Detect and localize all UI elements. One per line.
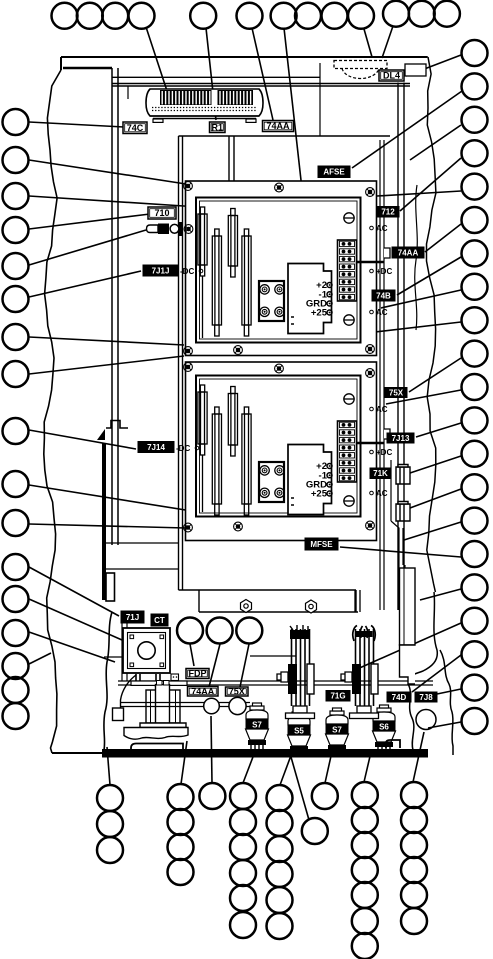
label 75X <box>385 388 407 398</box>
plate screw <box>234 522 243 531</box>
fuse component <box>147 222 183 236</box>
label 71K <box>370 468 391 479</box>
bottom tube right <box>386 740 400 748</box>
card guide bar <box>198 207 207 338</box>
connector stripes <box>160 90 253 105</box>
ring small right <box>229 697 246 714</box>
label 7J1J-DC <box>143 265 178 276</box>
svg-text:7J13: 7J13 <box>392 434 410 443</box>
panel left edge <box>179 136 183 590</box>
svg-text:7J1J: 7J1J <box>152 266 170 275</box>
svg-text:DL4: DL4 <box>383 71 400 81</box>
side plug <box>384 429 390 439</box>
plate screw <box>184 225 193 234</box>
mid panel verticals above bundles <box>355 590 360 612</box>
CT transformer <box>123 628 170 673</box>
terminal strip <box>338 421 357 482</box>
torn break line, left inner (lower) <box>104 612 112 750</box>
CT wire hook <box>121 675 137 708</box>
connector pin bundle at x=364 <box>356 629 374 706</box>
connector right foot <box>246 119 256 122</box>
svg-text:+DC: +DC <box>376 267 392 276</box>
hex bolt left <box>241 600 252 613</box>
cabinet top edge <box>61 56 427 58</box>
svg-text:7J14: 7J14 <box>147 443 165 452</box>
svg-text:+25: +25 <box>311 489 328 500</box>
svg-text:+25: +25 <box>311 308 328 319</box>
plate screw <box>275 364 284 373</box>
label 71G <box>326 691 350 702</box>
right edge vertical near top <box>427 56 428 58</box>
label 74AA (right) <box>392 247 424 258</box>
hinge white tab <box>106 573 115 601</box>
mid rail segment <box>250 655 296 657</box>
ring small left <box>204 698 220 714</box>
ring bottom right <box>416 710 436 730</box>
svg-text:-DC: -DC <box>176 444 190 453</box>
shelf bracket verticals <box>229 136 234 181</box>
slotted screw <box>344 394 354 404</box>
svg-text:71J: 71J <box>126 613 139 622</box>
terminal strip <box>338 240 357 301</box>
valve S7 <box>326 708 348 724</box>
plate screw <box>234 346 243 355</box>
bottom-right torn jag <box>408 592 437 678</box>
vertical line above module1 right <box>319 63 321 136</box>
DL4 dashed outline component <box>334 61 387 69</box>
solenoid arm <box>121 703 250 707</box>
label FDP <box>186 669 209 679</box>
tray tube <box>131 744 183 756</box>
module face box <box>196 376 361 517</box>
FDP little box <box>171 674 179 681</box>
label 7J8 <box>415 692 437 702</box>
CT mounting feet <box>136 674 160 681</box>
label 712 <box>377 207 399 218</box>
top rail lines <box>112 77 410 86</box>
top-left corner post <box>63 67 112 70</box>
card guide bar <box>242 407 251 515</box>
left wall channel <box>112 68 118 545</box>
slotted screw <box>344 315 354 325</box>
screw plate <box>259 281 284 321</box>
svg-text:AC: AC <box>376 405 388 414</box>
card guide bar <box>212 229 221 336</box>
module plate (y+0) <box>186 181 377 356</box>
svg-text:7J8: 7J8 <box>419 693 433 702</box>
svg-text:74B: 74B <box>376 291 391 300</box>
svg-text:75X: 75X <box>229 687 245 697</box>
CT base plate <box>131 681 187 685</box>
connector left foot <box>153 119 163 122</box>
card guide bar <box>228 209 237 278</box>
plate screw <box>366 188 375 197</box>
connector pin bundle at x=300 <box>292 629 310 706</box>
panel right edge lines <box>380 140 384 610</box>
label 710 <box>148 207 176 219</box>
power terminal box <box>288 445 332 515</box>
torn break line, right second <box>415 185 418 330</box>
svg-text:-DC: -DC <box>180 267 194 276</box>
side plug <box>384 248 390 258</box>
svg-text:S7: S7 <box>252 720 262 729</box>
plate screw <box>184 347 193 356</box>
label R1 <box>210 122 226 133</box>
svg-text:71K: 71K <box>373 469 388 478</box>
label CT <box>151 614 168 626</box>
card guide bar <box>198 385 207 512</box>
valve S5 <box>288 709 310 725</box>
svg-text:FDP: FDP <box>189 669 207 679</box>
hex bolt right <box>306 600 317 613</box>
svg-text:74C: 74C <box>127 123 144 133</box>
panel top shelf <box>179 135 391 137</box>
label 74B <box>372 290 395 301</box>
label 74D <box>387 692 411 702</box>
torn break line, right <box>427 57 436 592</box>
svg-text:S5: S5 <box>294 726 304 735</box>
bottom-right bracket <box>400 645 416 684</box>
connector lower dotted band <box>152 107 257 109</box>
left hinge bar <box>102 443 106 600</box>
right channel bracket <box>400 568 416 645</box>
plate screw <box>366 345 375 354</box>
label 75X (bottom) <box>226 687 249 697</box>
leader lines from callouts <box>29 26 462 820</box>
plug P2 <box>396 502 410 522</box>
hinge wedge <box>97 429 105 440</box>
card guide bar <box>212 407 221 515</box>
connector bottom bar <box>150 116 259 119</box>
module plate (y+181) <box>186 362 377 541</box>
slotted screw <box>344 496 354 506</box>
plate screw <box>366 521 375 530</box>
svg-text:S6: S6 <box>379 722 389 731</box>
svg-text:MFSE: MFSE <box>310 540 333 549</box>
svg-text:712: 712 <box>381 208 395 217</box>
plate screw <box>184 523 193 532</box>
label 71J (bottom) <box>121 611 144 623</box>
svg-text:71G: 71G <box>330 692 345 701</box>
label 7J14-DC <box>138 442 174 453</box>
cabinet left corner edge <box>60 57 62 70</box>
slotted screw <box>344 213 354 223</box>
DL4 cable curve <box>342 69 379 79</box>
small wall box <box>113 708 124 721</box>
inner right wall <box>398 83 404 611</box>
module face box <box>196 198 361 343</box>
panel bottom edge <box>179 590 359 612</box>
label 74C <box>123 122 147 134</box>
screw plate <box>259 462 284 502</box>
svg-text:AC: AC <box>376 489 388 498</box>
svg-text:CT: CT <box>154 616 165 625</box>
svg-text:75X: 75X <box>389 388 404 397</box>
plate screw <box>275 183 284 192</box>
plate screw <box>366 369 375 378</box>
torn break line, left outer <box>44 70 61 753</box>
svg-text:AC: AC <box>376 224 388 233</box>
plate screw <box>184 363 193 372</box>
card guide bar <box>242 229 251 336</box>
right bracket below plugs <box>391 460 405 610</box>
svg-text:710: 710 <box>154 208 169 218</box>
svg-text:74AA: 74AA <box>191 687 215 697</box>
svg-text:74AA: 74AA <box>398 248 419 257</box>
label AFSE <box>318 166 350 178</box>
bottom rails <box>118 681 433 685</box>
cabinet bottom-left edge <box>52 752 104 754</box>
svg-text:AC: AC <box>376 308 388 317</box>
card guide bar <box>228 387 237 457</box>
svg-text:AFSE: AFSE <box>323 168 345 177</box>
svg-text:R1: R1 <box>211 123 223 133</box>
solenoid component <box>140 681 186 728</box>
label 74AA (bottom) <box>188 687 219 697</box>
label 7J13 <box>387 433 414 443</box>
plug P1 <box>396 465 410 485</box>
svg-text:S7: S7 <box>332 725 342 734</box>
hinge top tab <box>106 421 128 429</box>
label 74AA (top) <box>263 121 294 132</box>
label DL4 <box>379 70 404 81</box>
lower shelf lines <box>106 543 178 569</box>
top-right hinge bracket <box>405 64 426 76</box>
power terminal box <box>288 264 332 334</box>
svg-text:+DC: +DC <box>376 448 392 457</box>
label MFSE <box>305 538 338 550</box>
plate screw <box>184 182 193 191</box>
solenoid tray <box>124 728 188 740</box>
valve S6 <box>373 705 395 721</box>
left wall lower verticals <box>122 612 127 681</box>
valve S7 <box>246 703 268 719</box>
svg-text:74AA: 74AA <box>266 121 290 131</box>
connector block shell <box>146 89 263 116</box>
bottom base black bar <box>102 749 428 758</box>
svg-text:74D: 74D <box>392 693 407 702</box>
